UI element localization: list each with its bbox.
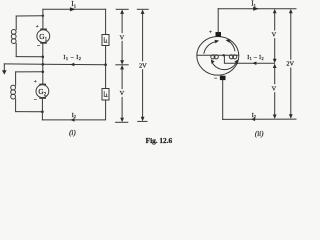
inductor L1 (coil, left top branch): [11, 16, 16, 57]
voltmeter arrow V (i) top: tick bars: [116, 8, 128, 10]
arrow I1 (i): [70, 7, 76, 11]
earth arrow (down): [3, 64, 5, 71]
armature mid line: [197, 54, 239, 56]
V arrow (i) bottom segment: [121, 68, 123, 119]
svg-text:2V: 2V: [139, 62, 147, 69]
arrow I2 (points left): [70, 118, 74, 122]
wire C: coil2 top feed: [16, 71, 43, 73]
svg-text:+: +: [36, 24, 39, 30]
V arrow (ii) bottom segment: [274, 67, 276, 116]
machine armature circle: [197, 37, 239, 76]
junction dot D (coil2 bottom): [41, 110, 44, 113]
wire: middle branch (I1-I2): [43, 63, 106, 65]
svg-text:(ii): (ii): [255, 130, 264, 138]
wire: right side down to resistor R1: [105, 9, 107, 34]
V arrow (i) top segment: [121, 13, 123, 62]
svg-text:V: V: [272, 32, 277, 39]
wire: G1 bottom through junctions to G2 top (spine): [42, 43, 44, 85]
armature winding left (2 loops): [211, 55, 215, 59]
arrow I1-I2 (ii) points left: [252, 61, 256, 65]
resistor R1 (box): [102, 35, 109, 46]
inductor L2 (coil, left bottom branch): [11, 72, 16, 112]
svg-text:−: −: [214, 76, 218, 82]
wire: R2 down and bottom rail of (i): [42, 100, 105, 120]
wire B: earth branch: [4, 63, 43, 65]
wire: bottom rail (ii): [223, 118, 296, 120]
arrow I2 (ii) points left: [251, 118, 255, 122]
circulating arrow arc bottom (heads both ends): [212, 62, 236, 69]
svg-text:I2: I2: [252, 113, 256, 119]
node dot above G1: [42, 15, 44, 17]
paper background: [0, 0, 300, 147]
center-tap node dot: [223, 54, 225, 56]
svg-text:+: +: [34, 79, 37, 85]
2V arrow (i): [142, 13, 144, 119]
brush terminal bottom (filled): [220, 76, 226, 80]
V arrow (ii) top segment: [274, 12, 276, 60]
center-tap lead (down then right, exits circle): [224, 55, 274, 63]
G1 top brush tick: [41, 28, 46, 30]
wire: node to G1 top: [42, 16, 44, 29]
circulating arrow arc top-right (counter-clockwise): [229, 41, 235, 51]
wire: top rail (ii): [218, 8, 296, 10]
svg-text:2V: 2V: [286, 61, 294, 68]
wire: G2 bottom to bottom rail: [41, 98, 43, 120]
G2 bottom brush tick: [40, 97, 45, 99]
svg-text:(i): (i): [69, 129, 76, 137]
circulating arrow arc top-left (clockwise): [204, 42, 215, 53]
brush terminal top (filled): [216, 32, 222, 37]
wire A: coil1 bottom return: [16, 56, 43, 58]
R2 inner mark: [104, 92, 107, 97]
arrow I1-I2 (points left): [70, 63, 74, 67]
2V arrow (ii): [290, 12, 292, 116]
svg-text:V: V: [120, 90, 125, 97]
R1 inner mark: [104, 38, 107, 43]
arrow I1 (ii): [253, 7, 259, 11]
node dot middle right: [104, 63, 107, 66]
svg-text:+: +: [209, 29, 212, 35]
svg-text:V: V: [120, 34, 125, 41]
wire: L1 top to node above G1: [16, 15, 43, 17]
svg-text:I1 – I2: I1 – I2: [63, 55, 81, 61]
wire: top terminal to top rail (ii): [217, 9, 219, 32]
G2 top brush tick: [40, 83, 45, 85]
junction dot A (coil1 return): [42, 56, 45, 59]
svg-text:V: V: [272, 85, 277, 92]
svg-text:I2: I2: [72, 113, 76, 119]
generator G2 circle: [36, 85, 49, 98]
wire: L2 bottom return: [16, 111, 43, 113]
resistor R2 (box): [102, 89, 109, 101]
wire: R1 to middle node: [105, 46, 107, 65]
generator G1 circle: [37, 30, 50, 43]
2V arrow (i): tick bars: [137, 8, 148, 10]
svg-text:−: −: [37, 43, 41, 49]
svg-text:Fig. 12.6: Fig. 12.6: [146, 136, 173, 145]
wire: middle node down to resistor R2: [105, 65, 107, 89]
G1 bottom brush tick: [41, 42, 46, 44]
wire: jog up from node to top rail: [42, 9, 44, 16]
junction dot C (coil2 top): [42, 71, 45, 74]
wire: top rail of (i): [43, 8, 106, 10]
junction dot B (earth + middle branch): [42, 63, 45, 66]
wire: bottom terminal to bottom rail (ii): [222, 80, 224, 119]
armature winding right (2 loops): [229, 55, 233, 59]
svg-text:I1 – I2: I1 – I2: [247, 55, 264, 61]
